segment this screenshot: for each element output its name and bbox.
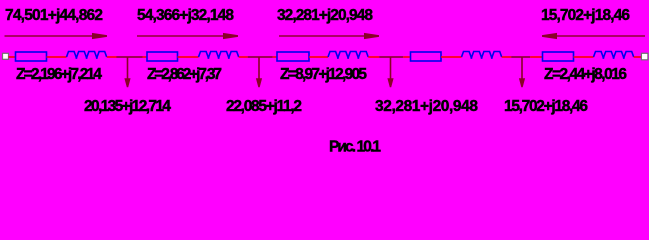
node 3 branch arrow down (387, 57, 393, 87)
wire L1 to node 1 (107, 56, 117, 58)
power-flow arrow A4 (points left) (542, 33, 645, 39)
wire maroon segment at node 4 (511, 56, 530, 58)
wire L4 to node 4 (502, 56, 512, 58)
node 1 branch arrow down (124, 57, 130, 87)
wire maroon segment at node 2 (248, 56, 273, 58)
power-flow arrow A2 (137, 33, 238, 39)
svg-text:Z=2,862+j7,37: Z=2,862+j7,37 (147, 66, 222, 83)
terminal left (3, 53, 9, 59)
wire maroon segment at node 3 (379, 56, 403, 58)
node 4 branch arrow down (519, 57, 525, 87)
svg-text:Z=2,44+j8,016: Z=2,44+j8,016 (544, 66, 627, 83)
wire maroon segment at node 1 (117, 56, 143, 58)
wire node 3 to R4 (403, 56, 410, 58)
wire node 4 to R5 (530, 56, 542, 58)
resistor R1 (16, 52, 47, 61)
node 2 branch arrow down (256, 57, 262, 87)
resistor R4 (411, 52, 442, 61)
wire R3 to L3 (309, 56, 328, 58)
resistor R3 (277, 52, 309, 61)
wire R5 to L5 (574, 56, 594, 58)
svg-text:15,702+j18,46: 15,702+j18,46 (504, 98, 588, 115)
svg-text:15,702+j18,46: 15,702+j18,46 (541, 7, 630, 24)
inductor L2 (199, 52, 239, 59)
svg-text:Z=2,196+j7,214: Z=2,196+j7,214 (16, 66, 102, 83)
wire L2 to node 2 (239, 56, 248, 58)
power-flow arrow A3 (279, 33, 379, 39)
svg-text:Рис. 10.1: Рис. 10.1 (329, 139, 381, 156)
wire L5 to right terminal (634, 56, 642, 58)
wire terminal to R1 (9, 56, 17, 58)
svg-text:20,135+j12,714: 20,135+j12,714 (84, 98, 171, 115)
terminal right (641, 53, 648, 60)
svg-text:32,281+j20,948: 32,281+j20,948 (375, 98, 478, 115)
inductor L1 (67, 52, 107, 59)
power-flow arrow A1 (5, 33, 108, 39)
resistor R2 (147, 52, 178, 61)
inductor L5 (594, 52, 634, 59)
wire node 2 to R3 (273, 56, 277, 58)
wire R2 to L2 (178, 56, 199, 58)
wire R4 to L4 (441, 56, 462, 58)
inductor L3 (328, 52, 368, 59)
inductor L4 (462, 52, 502, 59)
resistor R5 (543, 52, 574, 61)
svg-text:32,281+j20,948: 32,281+j20,948 (277, 7, 373, 24)
svg-text:Z=8,97+j12,905: Z=8,97+j12,905 (280, 66, 367, 83)
wire R1 to L1 (47, 56, 67, 58)
wire node 1 to R2 (143, 56, 148, 58)
svg-text:54,366+j32,148: 54,366+j32,148 (137, 7, 234, 24)
svg-text:22,085+j11,2: 22,085+j11,2 (226, 98, 302, 115)
svg-text:74,501+j44,862: 74,501+j44,862 (5, 7, 103, 24)
wire L3 to node 3 (368, 56, 379, 58)
